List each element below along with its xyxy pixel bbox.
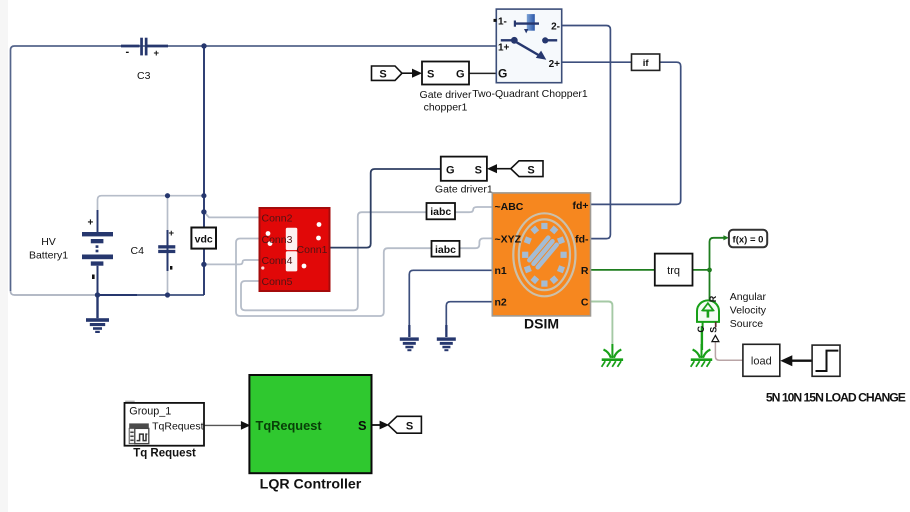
svg-text:n1: n1	[495, 265, 507, 277]
svg-text:1-: 1-	[498, 17, 507, 28]
svg-text:Source: Source	[730, 318, 763, 330]
svg-text:HV: HV	[41, 236, 56, 248]
svg-text:TqRequest: TqRequest	[256, 418, 323, 433]
svg-text:Conn4: Conn4	[262, 255, 293, 267]
svg-text:S: S	[427, 69, 434, 81]
svg-text:G: G	[456, 69, 465, 81]
svg-text:+: +	[169, 228, 175, 239]
svg-text:f(x) = 0: f(x) = 0	[733, 235, 764, 246]
svg-text:DSIM: DSIM	[524, 316, 559, 332]
svg-text:~ABC: ~ABC	[495, 201, 524, 213]
svg-text:fd+: fd+	[572, 200, 588, 212]
svg-text:+: +	[154, 48, 160, 59]
svg-text:S: S	[708, 327, 718, 333]
svg-text:Gate driver: Gate driver	[420, 89, 472, 101]
svg-text:S: S	[475, 165, 482, 177]
svg-text:chopper1: chopper1	[424, 102, 468, 114]
svg-text:fd-: fd-	[575, 233, 589, 245]
svg-text:if: if	[643, 58, 650, 69]
svg-text:S: S	[379, 69, 386, 81]
svg-text:load: load	[751, 355, 772, 367]
svg-text:G: G	[498, 67, 507, 81]
svg-text:C: C	[581, 297, 589, 309]
svg-text:Conn3: Conn3	[262, 234, 293, 246]
svg-text:LQR Controller: LQR Controller	[260, 477, 362, 493]
svg-text:Conn1: Conn1	[297, 244, 328, 256]
svg-text:Conn5: Conn5	[262, 276, 293, 288]
svg-text:Angular: Angular	[730, 291, 767, 303]
svg-text:C4: C4	[131, 245, 145, 257]
svg-text:Conn2: Conn2	[262, 213, 293, 225]
svg-text:C: C	[696, 325, 706, 332]
svg-text:2-: 2-	[551, 22, 560, 33]
svg-text:5N 10N 15N LOAD CHANGE: 5N 10N 15N LOAD CHANGE	[766, 391, 906, 405]
svg-text:vdc: vdc	[195, 233, 213, 245]
svg-text:2+: 2+	[549, 59, 561, 70]
svg-text:iabc: iabc	[430, 206, 451, 218]
svg-text:Battery1: Battery1	[29, 250, 68, 262]
svg-text:R: R	[581, 265, 589, 277]
svg-text:1+: 1+	[498, 43, 510, 54]
svg-text:Group_1: Group_1	[129, 405, 171, 417]
svg-text:Two-Quadrant Chopper1: Two-Quadrant Chopper1	[472, 88, 588, 100]
svg-text:G: G	[446, 165, 455, 177]
svg-text:R: R	[708, 295, 718, 302]
svg-text:~XYZ: ~XYZ	[495, 233, 522, 245]
svg-text:S: S	[406, 420, 413, 432]
svg-text:+: +	[88, 218, 94, 229]
svg-text:Tq Request: Tq Request	[133, 448, 196, 460]
svg-text:S: S	[527, 164, 534, 176]
svg-text:C3: C3	[137, 70, 151, 82]
svg-text:n2: n2	[495, 297, 507, 309]
svg-text:TqRequest: TqRequest	[152, 420, 203, 432]
svg-text:S: S	[358, 418, 367, 433]
svg-text:Velocity: Velocity	[730, 305, 767, 317]
svg-text:iabc: iabc	[435, 244, 456, 256]
svg-text:Gate driver1: Gate driver1	[435, 184, 493, 196]
svg-text:-: -	[126, 46, 130, 58]
svg-text:trq: trq	[667, 265, 680, 277]
